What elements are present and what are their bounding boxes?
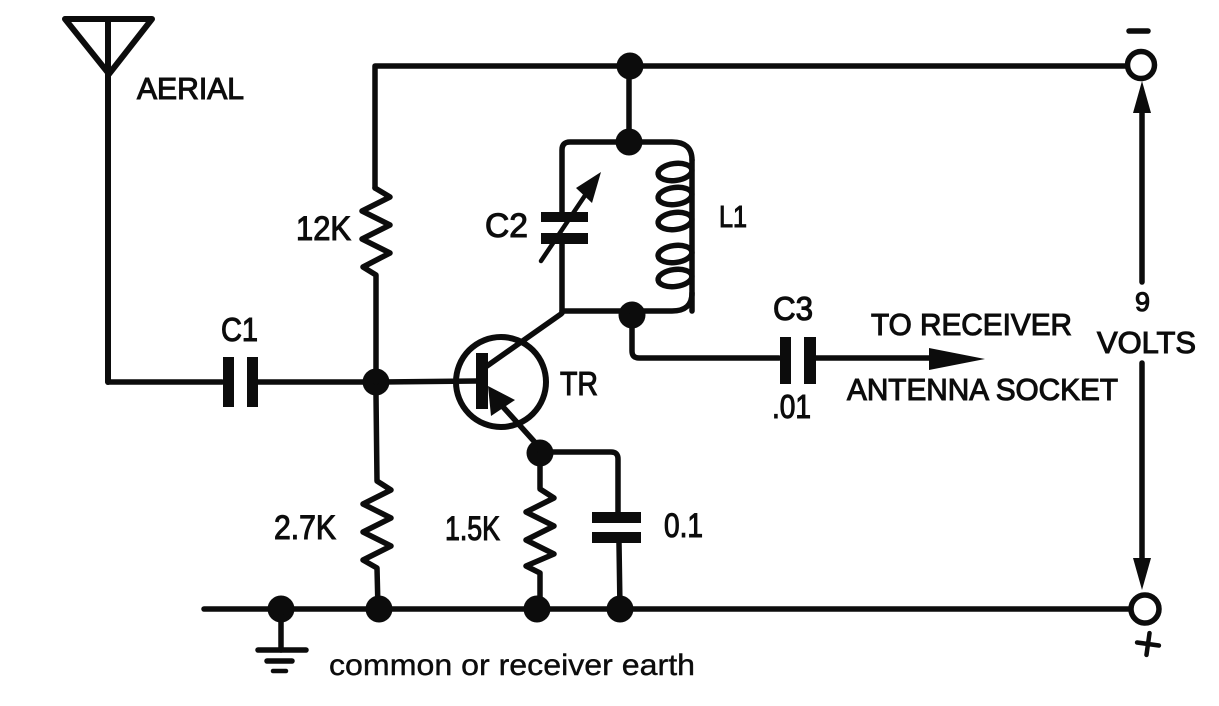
resistor 12K — [362, 188, 390, 382]
wire emitter node to 0.1 capacitor — [540, 452, 618, 512]
terminal minus — [1128, 31, 1155, 79]
wire 0.1 capacitor to ground bus — [619, 543, 620, 609]
svg-text:AERIAL: AERIAL — [137, 71, 244, 106]
aerial antenna symbol — [65, 19, 152, 382]
svg-text:9: 9 — [1135, 287, 1150, 317]
top supply wire — [375, 66, 1128, 188]
node emitter junction — [527, 440, 554, 467]
resistor 2.7K — [363, 395, 391, 609]
transistor TR — [456, 314, 561, 449]
capacitor 0.1 — [592, 512, 641, 543]
capacitor C3 — [780, 337, 816, 384]
wire C3 to output arrow — [816, 355, 935, 361]
ground symbol — [258, 616, 306, 671]
battery arrow up — [1133, 81, 1151, 282]
svg-text:12K: 12K — [296, 210, 351, 248]
svg-text:C2: C2 — [485, 207, 528, 245]
wire base node to transistor — [376, 381, 477, 382]
battery arrow down — [1133, 363, 1151, 590]
node ground junction — [268, 596, 295, 623]
node top bus junction — [617, 53, 644, 80]
svg-text:TO RECEIVER: TO RECEIVER — [871, 307, 1072, 342]
tank circuit bottom wire — [562, 293, 692, 311]
svg-text:C1: C1 — [221, 311, 258, 348]
wire tank to C3 — [632, 315, 779, 358]
ground bus wire — [204, 606, 1131, 612]
resistor 1.5K — [526, 453, 554, 609]
svg-text:TR: TR — [560, 365, 598, 402]
svg-text:ANTENNA SOCKET: ANTENNA SOCKET — [847, 372, 1118, 407]
svg-text:L1: L1 — [719, 199, 747, 234]
svg-text:0.1: 0.1 — [664, 507, 703, 545]
wire top bus to tank — [626, 66, 632, 142]
svg-text:1.5K: 1.5K — [445, 510, 500, 548]
node tank top junction — [616, 129, 643, 156]
node 1.5K junction — [524, 596, 551, 623]
svg-text:VOLTS: VOLTS — [1097, 325, 1196, 360]
wire C1 to base node — [258, 379, 376, 385]
node 2.7K junction — [366, 596, 393, 623]
svg-text:2.7K: 2.7K — [274, 509, 336, 547]
svg-text:.01: .01 — [772, 388, 811, 425]
node 0.1 junction — [607, 596, 634, 623]
variable capacitor C2 — [541, 172, 601, 313]
inductor L1 — [657, 160, 693, 311]
svg-text:common or receiver earth: common or receiver earth — [329, 649, 695, 682]
terminal plus — [1131, 595, 1160, 656]
node tank bottom junction — [619, 302, 646, 329]
svg-text:C3: C3 — [773, 290, 813, 327]
node base junction — [363, 369, 390, 396]
capacitor C1 — [223, 357, 258, 407]
tank circuit top wire — [562, 142, 692, 212]
output arrow to receiver — [929, 348, 985, 370]
wire from aerial to C1 — [108, 379, 222, 385]
